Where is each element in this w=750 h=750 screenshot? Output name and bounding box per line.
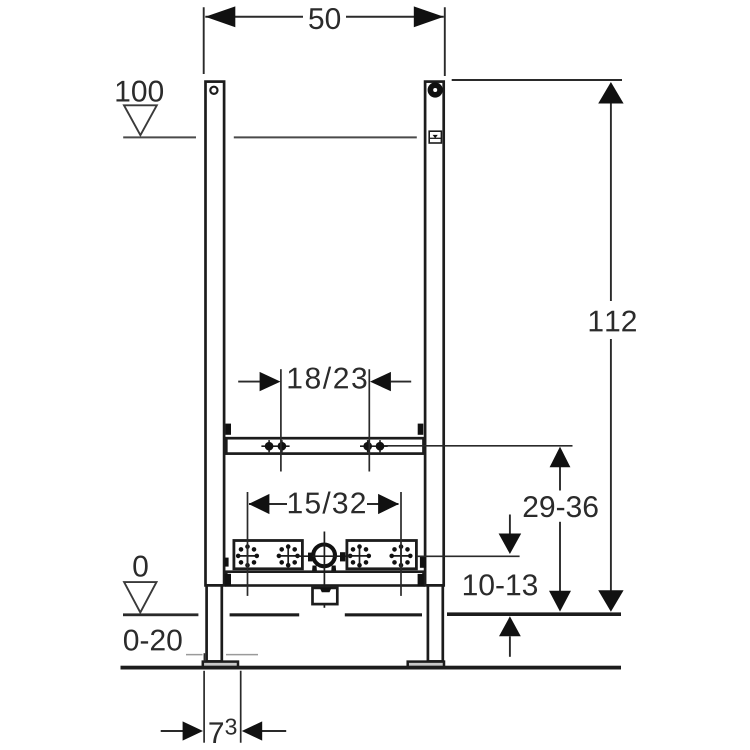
dim 112 arrow down: [598, 590, 623, 612]
ring crosshair: [297, 555, 352, 557]
label 7 exponent 3: [225, 718, 236, 734]
level marker 0 triangle: [124, 582, 156, 612]
label 0-20: [124, 629, 182, 650]
label 15/32: [289, 492, 365, 514]
dim 15/32 line: [249, 503, 287, 505]
plate tab right: [420, 557, 426, 568]
crossbar clip right: [418, 424, 424, 435]
dim 18/23 extension lines: [280, 369, 282, 471]
label 0: [133, 556, 147, 577]
water trap ring: [313, 545, 335, 567]
dim 15/32 extension lines: [247, 492, 249, 596]
label 112: [590, 310, 636, 331]
right rail: [425, 82, 444, 586]
dim 7 leaders: [161, 730, 183, 732]
ring foot left: [312, 566, 317, 571]
crossbar: [226, 438, 423, 453]
left fixing plate: [234, 541, 303, 569]
dim 10-13 arrow down: [499, 534, 522, 555]
dim 18/23 arrow left: [260, 372, 281, 391]
label 50: [309, 8, 340, 29]
right fixing plate: [347, 541, 417, 569]
label 29-36: [524, 496, 598, 517]
zero level dash 2: [345, 613, 422, 616]
level marker 100 triangle: [124, 105, 157, 135]
right leg: [428, 585, 443, 661]
zero level line left: [123, 613, 198, 616]
plate tab left: [225, 558, 229, 567]
faint floor-option line: [186, 654, 258, 656]
ring tab right: [340, 552, 345, 561]
dim 29-36 arrow up: [550, 447, 571, 468]
bolt pair left: [261, 445, 289, 447]
dim 112 arrow up: [598, 82, 623, 104]
drain notch: [320, 588, 332, 593]
hole cluster 1: [237, 545, 258, 566]
left leg: [207, 585, 222, 661]
centre line: [323, 532, 325, 608]
floor line: [121, 666, 622, 670]
ring tab left: [308, 553, 312, 562]
dim 7 arrow left: [183, 721, 203, 740]
level line 100: [123, 136, 196, 138]
dim 50 extension lines: [203, 7, 205, 74]
hole cluster 3: [349, 545, 370, 566]
label 10-13: [464, 574, 537, 595]
bar clip right: [418, 574, 424, 586]
zero level line right: [447, 612, 621, 616]
dim 29-36 extension line: [384, 445, 573, 447]
ring foot right: [331, 566, 336, 571]
crossbar clip left: [225, 424, 231, 435]
label 18/23: [289, 367, 367, 389]
hole cluster 2: [278, 545, 299, 566]
label 100: [116, 81, 163, 102]
dim 7 arrow right: [242, 721, 262, 740]
bar clip left: [225, 574, 231, 586]
dim 7 left stub above floor: [203, 653, 205, 661]
left foot: [203, 662, 238, 668]
dim 18/23 arrow right: [370, 372, 391, 391]
label 7: [209, 722, 223, 743]
right foot: [408, 662, 444, 668]
right rail clip: [429, 131, 441, 143]
dim 112 line: [610, 103, 612, 301]
dim 15/32 arrow left: [249, 494, 270, 514]
dim 112 extension line: [452, 79, 622, 81]
bottom bar: [226, 572, 423, 586]
bolt pair right: [360, 445, 388, 447]
hole cluster 4: [390, 545, 411, 566]
dim 15/32 arrow right: [378, 494, 399, 514]
left rail: [206, 82, 225, 586]
dim 7 extension lines: [203, 671, 205, 743]
dim 29-36 arrow down: [549, 591, 571, 612]
right rail pivot pin: [428, 82, 443, 97]
dim 10-13 extension line: [417, 555, 520, 557]
dim 50 line: [205, 16, 303, 18]
drain box: [313, 588, 338, 604]
dim 10-13 lower stub: [509, 636, 511, 657]
dim 18/23 leaders: [238, 381, 260, 383]
left rail pivot hole: [210, 87, 217, 94]
dim 10-13 upper stub: [509, 515, 511, 535]
dim 50 arrow right: [414, 6, 444, 27]
dim 10-13 arrow up: [499, 616, 521, 636]
dim 50 arrow left: [205, 6, 235, 27]
dim 29-36 line: [559, 467, 561, 491]
zero level dash 1: [230, 613, 300, 616]
